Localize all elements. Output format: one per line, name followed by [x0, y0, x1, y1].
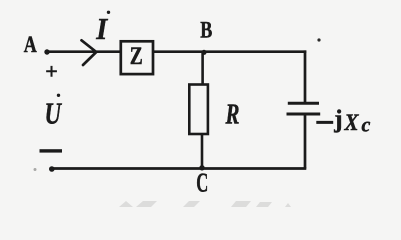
svg-text:R: R — [225, 100, 240, 131]
node A — [24, 32, 50, 58]
svg-text:c: c — [362, 115, 371, 137]
wire: right branch from top corner down to capacitor — [304, 50, 307, 102]
impedance box Z — [121, 41, 153, 74]
svg-text:B: B — [200, 18, 212, 43]
wire: node A to Z box (top left segment) — [47, 50, 121, 53]
wire: Z box to right corner (through node B) — [154, 50, 306, 53]
svg-text:+: + — [45, 59, 58, 84]
svg-text:U: U — [45, 96, 63, 131]
resistor R (box) — [189, 85, 208, 135]
capacitor Xc (plates) — [287, 103, 321, 114]
label İ (current) — [95, 11, 110, 46]
current arrow (on wire A-Z) — [82, 40, 97, 65]
wire: below capacitor down to bottom rail — [304, 116, 307, 169]
label − (source polarity) — [40, 149, 63, 152]
svg-text:A: A — [24, 32, 37, 58]
svg-text:C: C — [196, 167, 208, 197]
wire: bottom rail (left terminal to capacitor branch) — [52, 167, 307, 170]
svg-text:X: X — [344, 110, 360, 135]
label -jXc — [316, 106, 370, 137]
svg-text:j: j — [333, 106, 342, 133]
terminal dot (bottom left) — [49, 166, 55, 172]
svg-text:I: I — [95, 11, 108, 46]
label U (source voltage) — [45, 94, 63, 131]
wire: node B down to resistor — [201, 51, 204, 85]
stray scan dot (bottom left) — [34, 168, 37, 171]
svg-text:Z: Z — [130, 41, 143, 70]
node C — [196, 165, 208, 197]
stray scan dot (top right) — [317, 38, 320, 41]
wire: resistor down to node C — [201, 134, 204, 168]
watermark fragments (bottom edge) — [119, 201, 291, 207]
node B — [200, 18, 212, 55]
